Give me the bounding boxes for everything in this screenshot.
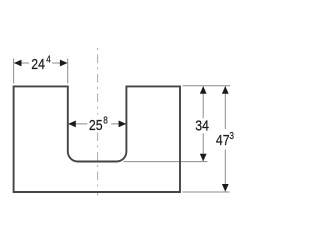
arrow down of 47 dim (222, 184, 229, 192)
label 24^4 (29, 54, 52, 71)
wire: cutout-bottom extension line (124, 161, 208, 163)
arrow left of 25 dim (68, 121, 76, 128)
arrow right of 24 dim (60, 60, 68, 67)
wire: extension line right of 24 dim (67, 59, 69, 84)
label 25^8 (87, 115, 111, 133)
svg-text:24: 24 (31, 56, 45, 72)
label 34 (194, 118, 212, 133)
svg-text:47: 47 (216, 132, 230, 148)
dimension 34 line (202, 86, 204, 161)
wire: bottom-right extension line (183, 191, 230, 193)
wire: top-right extension line (183, 85, 231, 87)
arrow left of 24 dim (14, 60, 22, 67)
dimension 25 line (68, 123, 126, 125)
svg-text:8: 8 (103, 115, 108, 126)
wire: extension line left of 24 dim (13, 59, 15, 84)
arrow up of 34 dim (200, 86, 207, 94)
dimension 24 line (14, 62, 67, 64)
label 47^3 (215, 129, 236, 150)
dimension 47 line (224, 86, 226, 191)
svg-text:25: 25 (89, 117, 103, 133)
arrow right of 25 dim (119, 121, 127, 128)
outline of panel with U cutout (14, 86, 180, 192)
centerline (97, 48, 99, 196)
arrow up of 47 dim (222, 86, 229, 94)
svg-text:34: 34 (195, 117, 209, 133)
svg-text:4: 4 (46, 54, 51, 65)
arrow down of 34 dim (200, 154, 207, 162)
svg-text:3: 3 (229, 130, 234, 141)
